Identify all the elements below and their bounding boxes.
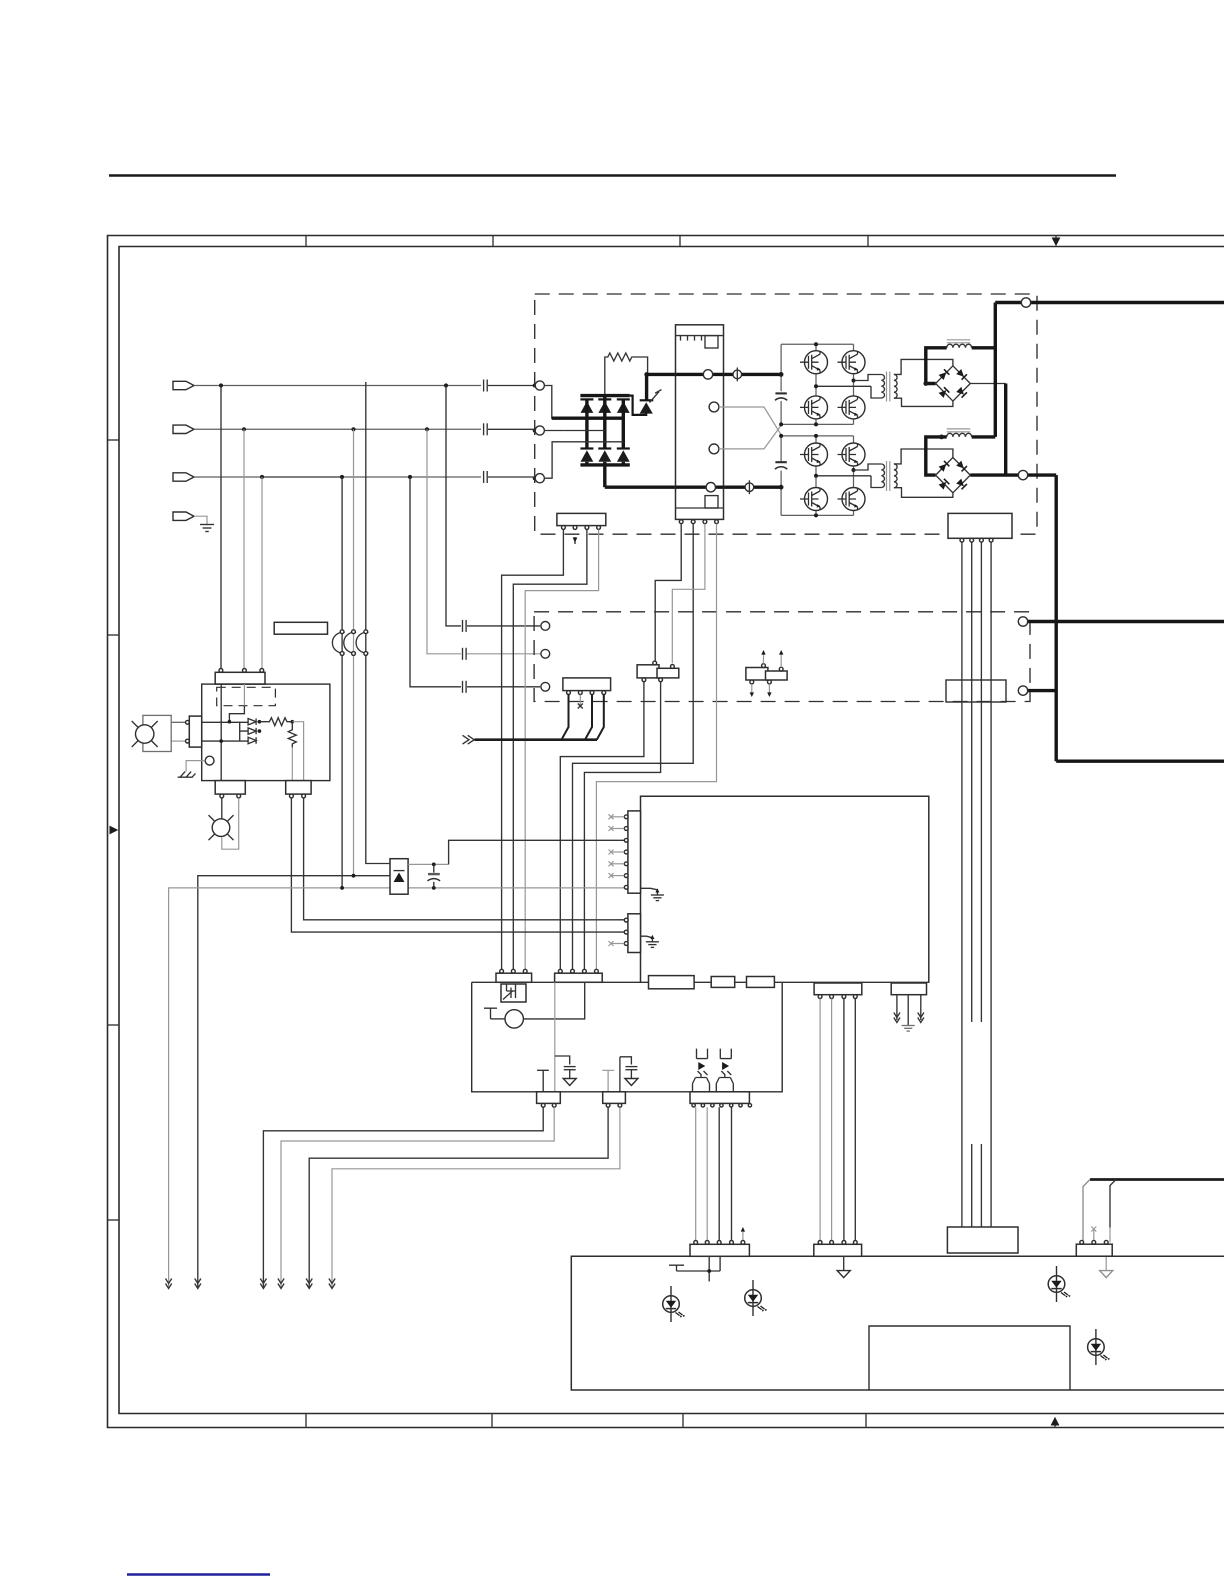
thyristor Q1 gate — [650, 390, 662, 403]
block pin3 — [703, 520, 707, 524]
connector B bottom pins — [642, 678, 646, 682]
bridge leg3 — [622, 399, 625, 448]
aux PSU dashed sub-box — [217, 687, 276, 705]
label box — [274, 622, 327, 634]
fan M2 blades — [209, 815, 234, 840]
T-bar 2 — [602, 1070, 614, 1092]
node ct1 — [340, 886, 344, 890]
wire E4-1 — [819, 999, 821, 1243]
R2 pins — [606, 1103, 610, 1107]
display sub-board — [869, 1326, 1070, 1390]
transformer T2 primary lead1 — [854, 464, 882, 470]
PCB connector P2 body — [628, 914, 641, 953]
phase3 mid rail — [557, 441, 623, 443]
wire fan supply 1 — [304, 798, 629, 920]
diode D2 — [598, 401, 611, 413]
connector I body — [555, 973, 603, 982]
thermostat body — [501, 984, 526, 1002]
LED2 — [745, 1280, 767, 1316]
choke L2 left lead — [926, 437, 947, 475]
wire drop L2 CT2 — [353, 429, 355, 875]
capacitor C-L3 — [484, 471, 535, 483]
connector A pins — [567, 691, 571, 695]
transformer T1 core — [887, 372, 890, 402]
H-bridge2 bottom rail — [781, 514, 853, 516]
IGBT Q9 — [838, 488, 866, 511]
terminal circle X2-3 — [541, 682, 550, 691]
shared bottom edge — [472, 981, 929, 983]
zone tick top 3 — [679, 236, 681, 247]
top rule — [109, 174, 1116, 177]
blue footer line — [127, 1573, 270, 1575]
node DC plus — [644, 372, 649, 377]
optocoupler U1 — [693, 1049, 710, 1092]
R1 pins — [541, 1103, 545, 1107]
wire block pin2 — [573, 524, 694, 970]
LED1 — [663, 1286, 685, 1322]
gate wire B crossover — [719, 424, 782, 449]
connector E pins — [694, 1241, 698, 1245]
wire P1-6 nc — [611, 875, 624, 877]
node choke2 — [939, 435, 944, 440]
nc mark A2 — [578, 704, 583, 709]
relay box body — [472, 982, 783, 1092]
node L2-b — [351, 427, 355, 431]
PCB edge connector E1 — [649, 976, 695, 989]
P2 pins — [624, 918, 628, 922]
wire r-aux down — [291, 747, 293, 781]
transformer T1 secondary coil — [894, 374, 897, 398]
buzzer lead bar — [484, 1008, 497, 1019]
transformer T2 secondary coil — [894, 464, 897, 488]
cap2 branch — [620, 1057, 632, 1065]
diode D3 bar — [617, 398, 630, 400]
buzzer wire — [491, 1018, 506, 1020]
descender pair2 — [619, 1057, 621, 1092]
diode D4 bar — [580, 447, 593, 449]
zener ZD2 — [248, 728, 256, 734]
bridge top rail — [580, 394, 629, 397]
wire C-top2 — [780, 653, 782, 667]
wire cap to PCB pin3 — [449, 840, 627, 864]
connector H body — [496, 973, 532, 982]
wire drop L3 CT1 — [341, 477, 343, 888]
terminal circle X2-1 — [541, 622, 550, 631]
wire E4-3 — [843, 999, 845, 1243]
aux terminal circle — [205, 756, 214, 765]
connector K pins — [960, 538, 964, 542]
block pin4 — [715, 520, 719, 524]
wire R3-6 stub arrow — [742, 1230, 744, 1242]
transformer T1 secondary top lead — [894, 359, 953, 374]
IGBT Q2 — [800, 351, 828, 374]
H-bridge1 left column — [815, 344, 817, 424]
terminal circle X1-2 — [535, 426, 544, 435]
R3 pins — [692, 1104, 695, 1107]
LED4 — [1088, 1329, 1110, 1365]
resistor R-aux vertical — [288, 722, 296, 748]
snubber resistor R1 — [605, 353, 648, 395]
node E internal — [707, 1269, 711, 1273]
choke L2 — [947, 433, 972, 437]
connector J pins — [562, 526, 566, 530]
left border arrow marker — [110, 826, 119, 835]
LED3 — [1048, 1266, 1070, 1302]
input terminal L2 — [173, 425, 194, 433]
aux connector top pins — [219, 669, 223, 673]
ground arrow hollow 2 — [625, 1079, 638, 1086]
connector J body — [557, 513, 606, 525]
choke L1 core — [947, 340, 971, 343]
arrow C-bot1 — [750, 692, 754, 697]
node bus2-rail — [779, 485, 784, 490]
bus1 through block — [676, 373, 724, 376]
wire P1-4 nc — [611, 851, 624, 853]
remote jog2 grey tail — [1109, 1228, 1111, 1243]
fan M2 bracket wire — [222, 798, 239, 849]
wire drop L2 to aux connector — [243, 429, 245, 670]
node dashed-edge2 — [533, 429, 537, 433]
wire X1-1 to bridge — [544, 386, 557, 419]
terminal circle X1-3 — [535, 474, 544, 483]
remote thick line — [1090, 1178, 1224, 1181]
wire block pin1 — [655, 524, 681, 663]
transformer T1 primary lead1 — [854, 375, 882, 381]
input terminal L3 — [173, 473, 194, 481]
terminal circle on bus2 — [706, 483, 715, 492]
diode module diode — [394, 873, 405, 883]
connector I pins — [558, 969, 562, 973]
diode D1 — [581, 401, 594, 413]
test point bus1 — [733, 368, 742, 382]
wire temp sense long — [198, 876, 390, 1287]
buzzer body — [505, 1010, 523, 1028]
node L2-c — [425, 427, 429, 431]
wire drop L1 CT3 — [366, 382, 390, 864]
C-t1 stem — [569, 1070, 571, 1079]
BR2 diode TR — [956, 461, 967, 472]
wire J3 gate lead — [513, 529, 587, 969]
capacitor C-L1 — [484, 380, 535, 392]
arrow C-bot2 — [767, 692, 771, 697]
soft-start PCB body — [676, 325, 724, 520]
earth bus — [475, 738, 598, 741]
wire drop L3 to aux connector — [261, 477, 263, 670]
remote jog1 — [1083, 1180, 1090, 1243]
wire A2 stub — [579, 695, 581, 706]
sense bus wire2 — [971, 542, 973, 1228]
IGBT Q4 — [800, 396, 828, 419]
wire phase L3 dark segment — [262, 476, 342, 478]
capacitor C-bus2 — [775, 461, 786, 463]
relay connector R2 body — [603, 1092, 626, 1104]
rectifier bridge BR2 diamond — [936, 458, 971, 493]
test point bus2 — [745, 480, 754, 494]
H-bridge2 left column — [815, 436, 817, 516]
minus bus lower — [970, 473, 1056, 476]
phase1 mid rail — [552, 417, 624, 420]
BR1 diode TL — [938, 369, 949, 380]
wire aux return long — [169, 888, 627, 1287]
wire phase L1 — [194, 385, 481, 387]
wire B1 descender — [560, 682, 644, 970]
diode D4 — [581, 450, 594, 462]
H-bridge2 top rail — [781, 435, 853, 437]
aux connector top body — [215, 672, 265, 684]
zone tick bottom 1 — [305, 1414, 307, 1428]
zone tick bottom 3 — [682, 1414, 684, 1428]
PCB connector P1 body — [628, 811, 641, 893]
ground PE — [200, 525, 214, 532]
aux PSU body — [202, 684, 330, 781]
wire R2-1 front panel — [309, 1107, 608, 1287]
terminal circle X1-1 — [535, 381, 544, 390]
transformer T1 primary lead2 — [871, 386, 881, 398]
input terminal L1 — [173, 381, 194, 389]
arrow C-top1 — [761, 650, 765, 655]
connector K body — [948, 513, 1012, 538]
connector G body — [947, 1227, 1018, 1253]
H-bridge1 bottom rail — [781, 423, 853, 425]
zone tick top 2 — [492, 236, 494, 247]
connector F body — [814, 1244, 862, 1256]
H-bridge2 left rail with cap break — [780, 436, 782, 516]
connector B top pins — [653, 661, 657, 665]
zener ZD3 — [248, 737, 256, 743]
wire phase L2 — [194, 428, 481, 430]
node cap-top — [432, 863, 436, 867]
wire P2-3 nc — [611, 943, 624, 945]
gate terminal A — [709, 402, 719, 412]
node L1-a — [219, 383, 223, 387]
right box vertical — [1054, 475, 1057, 761]
right box line mid — [1028, 620, 1224, 623]
chassis ground — [178, 772, 196, 778]
aux PSU inner step wire — [229, 706, 244, 723]
diode D6 bar — [617, 447, 630, 449]
transformer T2 secondary bottom lead — [894, 488, 953, 498]
current sensor body — [946, 680, 1006, 702]
node bus1-rail — [779, 372, 784, 377]
node dashed-edge1 — [533, 384, 537, 388]
wire X1-2 to bridge — [544, 430, 564, 432]
H-bridge2 mid line — [816, 475, 871, 477]
sheet border outer — [108, 236, 1224, 1428]
gate terminal B — [709, 444, 719, 454]
capacitor C-aux bottom plate — [428, 879, 441, 881]
soft-start PCB bottom notch — [705, 496, 718, 508]
IGBT Q7 — [838, 443, 866, 466]
PCB ground G1 — [641, 888, 658, 895]
BR2 diode BR — [956, 478, 967, 489]
rectifier bridge BR1 diamond — [936, 366, 971, 401]
sheet border inner — [119, 247, 1224, 1414]
bridge bottom rail — [580, 462, 629, 465]
node gateA-rail — [779, 422, 783, 426]
thermostat element — [503, 984, 516, 1000]
BR1 diode BL — [938, 387, 949, 398]
node L3-a — [260, 475, 264, 479]
CT1 arc — [332, 632, 344, 653]
zener ZD1 — [248, 719, 256, 725]
E5 ground — [902, 1026, 915, 1032]
diode module body — [390, 859, 408, 895]
wire drop L1 to filter cap — [446, 386, 461, 626]
wire C-bot2 — [768, 684, 770, 694]
PCB ground G2 — [641, 936, 653, 942]
soft-start PCB comb — [681, 336, 702, 341]
zone tick left 3 — [108, 1024, 120, 1026]
connector C body — [746, 668, 768, 681]
optocoupler U2 — [716, 1049, 733, 1092]
sense bus wire4 — [990, 542, 992, 1228]
PCB edge connector E3 — [747, 977, 775, 988]
diode D2 bar — [598, 398, 611, 400]
input terminal PE — [173, 512, 194, 520]
capacitor C-bus1 — [775, 392, 786, 394]
fan connector pin circles — [186, 720, 190, 724]
node r-aux — [291, 720, 295, 724]
control PCB body — [641, 796, 929, 983]
wire phase L3 cont — [342, 476, 481, 478]
connector D ground stem — [1105, 1256, 1107, 1270]
diode D1 bar — [580, 398, 593, 400]
E5 wires with arrows — [896, 995, 898, 1020]
buzzer wire right — [523, 982, 584, 1019]
wire P1-2 nc — [611, 828, 624, 830]
terminal circle out2 — [1018, 686, 1027, 695]
terminal circle X2-2 — [541, 649, 550, 658]
aux bottom connector2 — [286, 781, 311, 795]
capacitor C2-2 — [463, 648, 541, 660]
aux chassis wire — [186, 761, 205, 772]
dashed enclosure power module — [535, 294, 1037, 534]
zone tick left 4 — [108, 1219, 120, 1221]
zone tick left 1 — [108, 439, 120, 441]
fan connector body — [189, 716, 201, 747]
connector D pins — [1080, 1240, 1084, 1244]
aux wire row2 — [202, 740, 248, 742]
bridge top rail jog to SCR — [630, 396, 646, 415]
ground arrow hollow F — [837, 1271, 850, 1278]
wire E4-4 — [854, 999, 856, 1243]
IGBT Q6 — [800, 443, 828, 466]
wire X1-3 to bridge — [544, 442, 557, 478]
H-bridge1 right column — [853, 344, 855, 424]
node aux1 — [228, 720, 232, 724]
terminal circle on bus1 — [703, 370, 712, 379]
fan M1 blades — [132, 721, 158, 747]
aux PSU inner vertical 2 — [243, 684, 245, 706]
ground arrow hollow 1 — [563, 1079, 576, 1086]
output terminal circle minus — [1018, 470, 1027, 479]
connector D body — [1076, 1244, 1112, 1256]
CT3 arc — [356, 632, 368, 653]
wire A3 to earth bus — [585, 695, 592, 740]
wire PE — [194, 516, 207, 524]
BR1 minus lead — [970, 383, 1005, 385]
terminal circle out1 — [1018, 617, 1027, 626]
wire C-top1 — [763, 653, 765, 664]
wire block pin4 — [596, 524, 716, 970]
right box stub — [1028, 689, 1057, 692]
BR2 diode TL — [938, 461, 949, 472]
arrow C-top2 — [779, 650, 783, 655]
BR1 diode BR — [956, 387, 967, 398]
node bridge1 — [814, 342, 818, 346]
zone tick top 4 — [867, 236, 869, 247]
wire P1-5 nc — [611, 863, 624, 865]
transformer T2 primary coil — [881, 464, 884, 488]
top border arrow marker — [1052, 238, 1061, 247]
node cap-bottom — [432, 886, 436, 890]
phase2 mid rail — [565, 430, 605, 432]
capacitor C2-3 — [463, 681, 541, 693]
fan M2 body — [212, 819, 230, 837]
zone tick bottom 4 — [865, 1414, 867, 1428]
descender pair1 — [554, 982, 556, 1092]
remote jog2 — [1110, 1180, 1116, 1228]
output terminal circle plus — [1021, 298, 1030, 307]
H-bridge2 right column — [853, 436, 855, 516]
capacitor C2-1 — [463, 620, 541, 632]
diode D6 — [617, 450, 630, 462]
node zd — [258, 720, 262, 724]
wire R1-2 front panel — [281, 1107, 554, 1287]
wire P1-1 nc — [611, 816, 624, 818]
SCR cathode riser — [645, 374, 648, 400]
transformer T1 primary coil — [881, 375, 884, 399]
node L3-b — [340, 475, 344, 479]
fan1 bracket — [143, 715, 171, 751]
E4 pins — [818, 995, 822, 999]
aux wire row1 — [202, 721, 248, 723]
H-bridge1 top rail — [781, 343, 853, 345]
IGBT Q3 — [838, 351, 866, 374]
ground arrow hollow D — [1100, 1271, 1113, 1278]
relay connector R3 body — [690, 1092, 749, 1104]
bridge leg1 — [585, 399, 588, 448]
choke L2 core — [947, 429, 971, 432]
plus bus top — [995, 301, 1224, 304]
PCB bottom connector E4 — [814, 983, 862, 995]
connector C top pins — [762, 664, 766, 668]
zener link — [240, 722, 248, 741]
wire C-bot1 — [751, 684, 753, 694]
P1 pins — [624, 815, 628, 819]
bridge leg2 — [603, 396, 606, 449]
wire J4 gate lead — [525, 529, 598, 969]
plus bus vertical — [994, 303, 997, 437]
gate wire A crossover — [719, 407, 782, 436]
dashed enclosure EMI filter — [534, 612, 1030, 702]
connector F ground stem — [843, 1256, 845, 1270]
capacitor C-aux stems — [433, 864, 435, 888]
choke L1 right lead — [972, 346, 996, 349]
BR2 diode BL — [938, 479, 949, 490]
wire B2 descender — [584, 682, 660, 970]
choke L2 right lead — [972, 435, 996, 438]
wire module to cap top — [408, 863, 449, 865]
DC minus riser — [603, 465, 606, 487]
node choke1 — [923, 381, 928, 386]
connector A body — [563, 678, 611, 691]
CT1 pin circles — [340, 630, 344, 634]
relay connector R1 body — [537, 1092, 561, 1104]
PCB bottom connector E5 — [891, 983, 926, 995]
node bridge2 — [814, 434, 818, 438]
soft-start PCB top cap line — [676, 335, 724, 337]
